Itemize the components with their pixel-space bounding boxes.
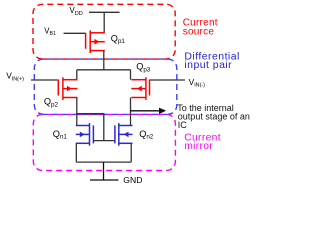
label Qn2 — [139, 129, 154, 141]
node VDD rail — [89, 11, 120, 13]
wire VB1 to Qp1 gate — [64, 32, 86, 34]
node diff pair common source rail — [77, 69, 131, 71]
svg-text:mirror: mirror — [184, 141, 213, 152]
wire gate rail between Qn1 and Qn2 — [93, 140, 115, 142]
transistor Qp2 (PMOS diff pair left) — [58, 77, 77, 100]
label output stage note — [177, 103, 250, 130]
label current mirror — [184, 132, 221, 152]
svg-text:output stage of an: output stage of an — [178, 111, 250, 121]
wire rail to Qp3 source — [130, 70, 132, 80]
label Qp1 — [111, 33, 126, 45]
current source box (red dashed) — [33, 4, 175, 59]
wire Qp3 drain down to Qn2 drain (output node) — [130, 98, 132, 126]
svg-text:input pair: input pair — [184, 59, 232, 71]
transistor Qn2 (NMOS mirror right) — [115, 123, 133, 146]
label Qp3 — [136, 62, 151, 74]
wire rail to Qp2 source — [76, 70, 78, 80]
differential input pair box (blue dashed) — [34, 59, 177, 114]
wire Qn1 source to ground rail — [75, 143, 77, 162]
transistor Qp1 (PMOS current source) — [86, 30, 105, 53]
transistor Qp3 (PMOS diff pair right) — [131, 77, 149, 100]
label differential input pair — [184, 50, 239, 71]
wire shared edge current-source/diff-pair (interleaved dashes) — [43, 58, 168, 60]
svg-text:IC: IC — [178, 120, 188, 130]
wire VIN- to Qp3 gate — [150, 79, 186, 81]
transistor Qn1 (NMOS mirror left, diode connected) — [76, 123, 94, 146]
wire shared edge diff-pair/current-mirror (interleaved dashes) — [43, 113, 168, 115]
svg-text:GND: GND — [123, 175, 142, 185]
ground — [90, 162, 119, 180]
svg-text:source: source — [183, 27, 215, 38]
wire diode connection jog (Qn1 drain to gates) — [77, 114, 104, 141]
wire VIN+ to Qp2 gate — [31, 79, 58, 81]
label VIN(-) — [189, 77, 206, 89]
node ground rail — [76, 161, 131, 163]
label Qp2 — [44, 97, 59, 109]
wire output arrow to internal stage — [131, 110, 160, 112]
current mirror box (magenta dashed) — [33, 114, 175, 170]
label Qn1 — [53, 129, 68, 141]
label GND — [123, 175, 142, 185]
label VIN(+) — [6, 71, 24, 83]
label VDD — [70, 6, 83, 17]
wire Qp1 drain to diff pair rail — [103, 51, 105, 70]
label current source — [183, 18, 218, 38]
wire Qn2 source to ground rail — [130, 143, 132, 162]
wire Qp2 drain down to Qn1 drain — [76, 98, 78, 126]
wire VDD to Qp1 source — [103, 12, 105, 33]
label VB1 — [44, 27, 56, 38]
